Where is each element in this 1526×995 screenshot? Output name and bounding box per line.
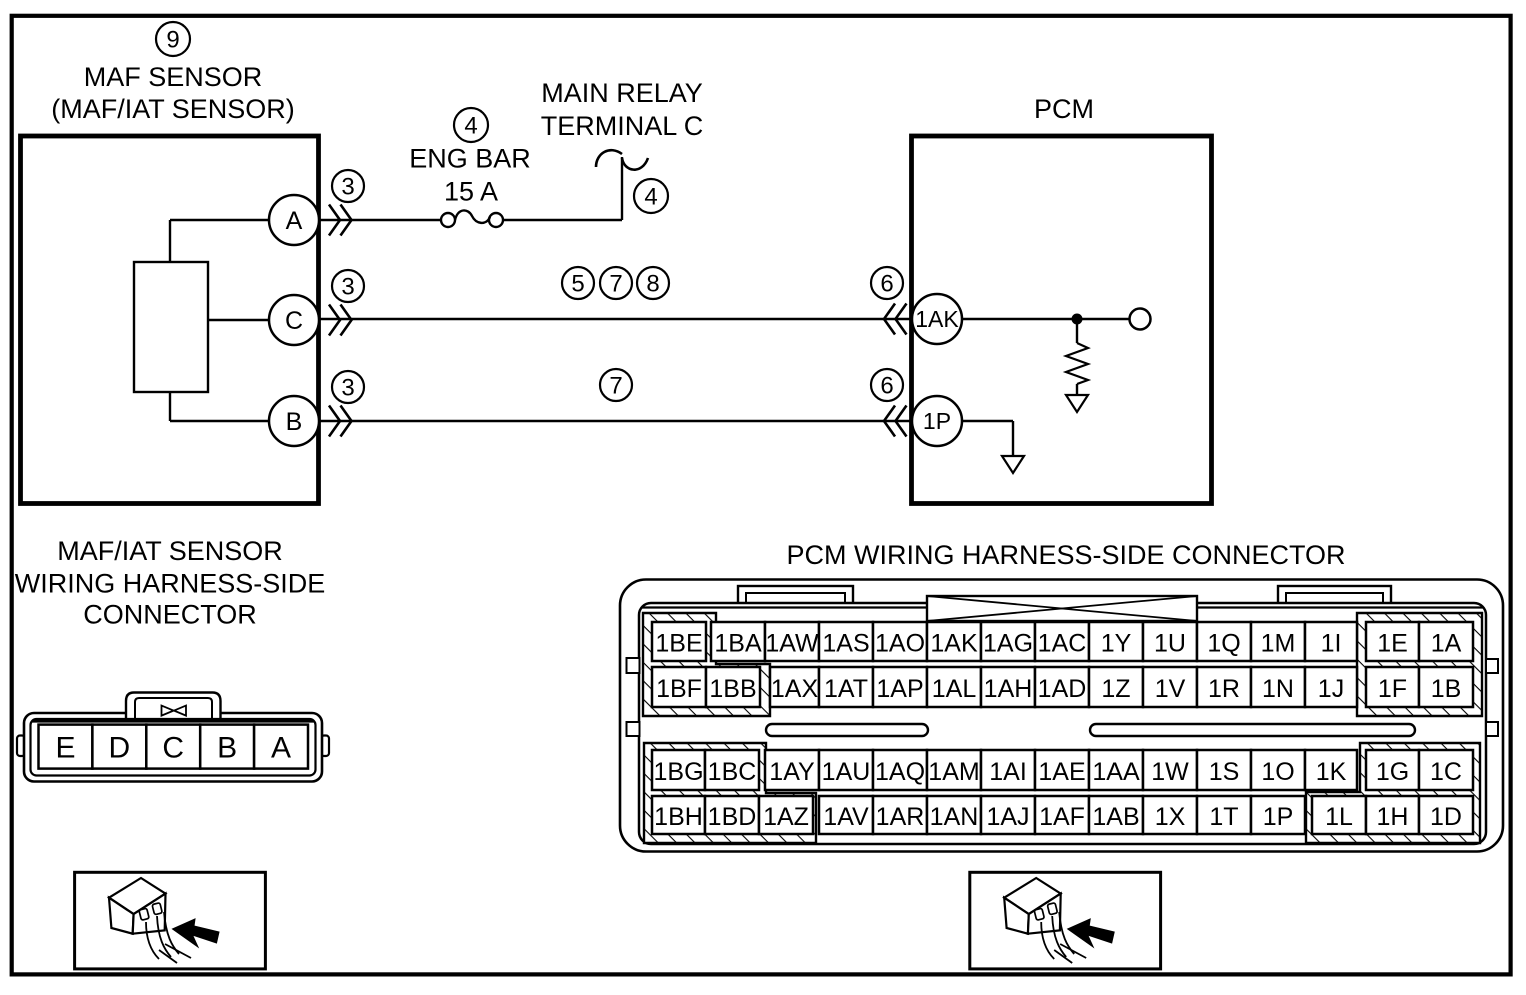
svg-text:4: 4 (644, 184, 657, 211)
svg-text:1U: 1U (1154, 630, 1186, 658)
svg-text:1AL: 1AL (932, 675, 977, 703)
svg-text:MAIN RELAY: MAIN RELAY (541, 78, 703, 108)
svg-text:1F: 1F (1378, 675, 1407, 703)
svg-text:1AR: 1AR (876, 803, 925, 831)
svg-text:1BC: 1BC (708, 758, 757, 786)
svg-text:1X: 1X (1155, 803, 1186, 831)
svg-text:1AB: 1AB (1092, 803, 1139, 831)
svg-text:8: 8 (646, 271, 659, 298)
svg-text:1Q: 1Q (1207, 630, 1240, 658)
svg-text:(MAF/IAT SENSOR): (MAF/IAT SENSOR) (51, 94, 295, 124)
svg-text:E: E (55, 732, 75, 765)
svg-text:1W: 1W (1151, 758, 1189, 786)
svg-text:1AH: 1AH (984, 675, 1033, 703)
svg-text:1H: 1H (1377, 803, 1409, 831)
svg-text:1AN: 1AN (930, 803, 979, 831)
svg-text:TERMINAL C: TERMINAL C (541, 111, 704, 141)
svg-text:3: 3 (341, 375, 354, 402)
svg-text:1AK: 1AK (930, 630, 978, 658)
svg-text:1Y: 1Y (1101, 630, 1132, 658)
svg-text:1C: 1C (1430, 758, 1462, 786)
svg-text:1L: 1L (1325, 803, 1353, 831)
svg-text:1AG: 1AG (983, 630, 1033, 658)
svg-text:1K: 1K (1316, 758, 1347, 786)
svg-text:1P: 1P (923, 408, 951, 434)
svg-text:1R: 1R (1208, 675, 1240, 703)
svg-text:1AW: 1AW (765, 630, 819, 658)
svg-text:3: 3 (341, 174, 354, 201)
svg-text:MAF/IAT SENSOR: MAF/IAT SENSOR (57, 536, 283, 566)
svg-text:1A: 1A (1431, 630, 1462, 658)
svg-text:1BA: 1BA (714, 630, 762, 658)
svg-text:1S: 1S (1209, 758, 1240, 786)
svg-text:CONNECTOR: CONNECTOR (83, 600, 257, 630)
svg-text:1AS: 1AS (822, 630, 869, 658)
svg-text:1AA: 1AA (1092, 758, 1140, 786)
svg-text:1AM: 1AM (928, 758, 979, 786)
svg-text:PCM: PCM (1034, 94, 1094, 124)
svg-text:PCM WIRING HARNESS-SIDE CONNEC: PCM WIRING HARNESS-SIDE CONNECTOR (786, 540, 1345, 570)
svg-text:1AY: 1AY (769, 758, 815, 786)
svg-text:1I: 1I (1321, 630, 1342, 658)
svg-text:1AQ: 1AQ (875, 758, 925, 786)
svg-text:1B: 1B (1431, 675, 1462, 703)
svg-text:1D: 1D (1430, 803, 1462, 831)
svg-text:1BE: 1BE (655, 630, 702, 658)
svg-text:C: C (162, 732, 184, 765)
svg-text:1AX: 1AX (771, 675, 819, 703)
svg-text:1BD: 1BD (708, 803, 757, 831)
svg-text:1BB: 1BB (709, 675, 756, 703)
svg-text:1AO: 1AO (875, 630, 925, 658)
svg-text:1AK: 1AK (915, 306, 959, 332)
svg-text:1E: 1E (1377, 630, 1408, 658)
svg-text:15 A: 15 A (444, 177, 498, 207)
svg-text:1AI: 1AI (989, 758, 1027, 786)
svg-text:6: 6 (880, 271, 893, 298)
svg-text:4: 4 (464, 113, 477, 140)
svg-text:1AE: 1AE (1038, 758, 1085, 786)
svg-text:D: D (109, 732, 131, 765)
svg-text:1AV: 1AV (823, 803, 869, 831)
svg-text:1J: 1J (1318, 675, 1344, 703)
svg-text:1AU: 1AU (822, 758, 871, 786)
svg-text:1AP: 1AP (876, 675, 923, 703)
svg-text:1AT: 1AT (824, 675, 868, 703)
svg-text:WIRING HARNESS-SIDE: WIRING HARNESS-SIDE (15, 569, 326, 599)
svg-text:1P: 1P (1263, 803, 1294, 831)
svg-text:1AF: 1AF (1039, 803, 1085, 831)
svg-text:1AD: 1AD (1038, 675, 1087, 703)
svg-text:3: 3 (341, 274, 354, 301)
svg-text:1AJ: 1AJ (986, 803, 1029, 831)
svg-text:1N: 1N (1262, 675, 1294, 703)
svg-text:ENG BAR: ENG BAR (409, 144, 531, 174)
svg-text:1O: 1O (1261, 758, 1294, 786)
svg-text:6: 6 (880, 373, 893, 400)
svg-text:1T: 1T (1209, 803, 1238, 831)
svg-text:1BH: 1BH (654, 803, 703, 831)
svg-text:1AC: 1AC (1038, 630, 1087, 658)
svg-text:1BF: 1BF (656, 675, 702, 703)
svg-text:7: 7 (609, 373, 622, 400)
svg-text:1V: 1V (1155, 675, 1186, 703)
svg-text:A: A (286, 207, 303, 235)
svg-text:A: A (271, 732, 291, 765)
svg-text:C: C (285, 307, 303, 335)
svg-text:1M: 1M (1261, 630, 1296, 658)
svg-text:1G: 1G (1376, 758, 1409, 786)
svg-text:5: 5 (571, 271, 584, 298)
svg-text:1AZ: 1AZ (763, 803, 809, 831)
svg-text:9: 9 (166, 27, 179, 54)
svg-text:B: B (217, 732, 237, 765)
svg-text:MAF SENSOR: MAF SENSOR (84, 62, 263, 92)
svg-text:7: 7 (609, 271, 622, 298)
svg-text:B: B (286, 408, 303, 436)
svg-text:1BG: 1BG (653, 758, 703, 786)
svg-text:1Z: 1Z (1101, 675, 1130, 703)
